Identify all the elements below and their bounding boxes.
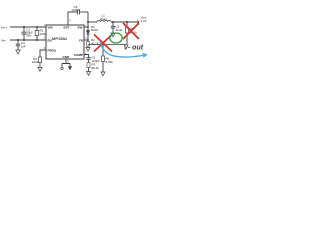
svg-text:3.3V: 3.3V bbox=[141, 19, 147, 23]
resistor R4 bbox=[39, 57, 42, 63]
ground arrow bbox=[68, 67, 72, 71]
capacitor C2 bbox=[112, 22, 114, 26]
ground bbox=[101, 72, 105, 76]
resistor R2 bbox=[87, 40, 89, 42]
op-amp U1 MP1584 box bbox=[46, 25, 84, 59]
svg-text:VIN: VIN bbox=[48, 26, 53, 30]
diode D1 bbox=[87, 27, 89, 31]
resistor R3 bbox=[87, 63, 90, 68]
wire FB pin bbox=[84, 39, 88, 41]
wire output rail bbox=[88, 21, 97, 23]
svg-text:1: 1 bbox=[85, 25, 87, 27]
wire FB net bbox=[88, 44, 127, 46]
svg-text:GND: GND bbox=[63, 55, 71, 59]
wire BST pin bbox=[68, 12, 77, 25]
inductor L1 bbox=[97, 20, 111, 22]
capacitor C1 bbox=[23, 27, 25, 32]
resistor R5 divider top bbox=[126, 22, 128, 28]
annotation blue arrow bbox=[101, 43, 146, 58]
annotation red X over divider R5 bbox=[124, 24, 139, 39]
svg-text:MP1584: MP1584 bbox=[52, 36, 68, 41]
resistor R6 divider bottom bbox=[102, 45, 104, 57]
svg-text:86.6k: 86.6k bbox=[92, 66, 100, 70]
svg-text:Vin+: Vin+ bbox=[1, 25, 7, 29]
svg-text:BST: BST bbox=[64, 26, 70, 30]
annotation green circle V-out node bbox=[110, 33, 122, 43]
svg-text:50V: 50V bbox=[26, 34, 31, 38]
svg-text:100k: 100k bbox=[40, 32, 47, 36]
node Vout terminal bbox=[137, 20, 139, 23]
capacitor C6 bbox=[86, 57, 90, 59]
resistor R1 bbox=[36, 27, 38, 31]
pin numbers bbox=[44, 21, 88, 64]
svg-text:22uF: 22uF bbox=[116, 28, 123, 32]
svg-text:V- out: V- out bbox=[124, 45, 144, 52]
wire COMP pin bbox=[84, 55, 89, 58]
svg-text:7: 7 bbox=[44, 25, 46, 27]
ground bbox=[86, 48, 90, 52]
svg-text:B230: B230 bbox=[91, 28, 98, 32]
wire SW node bbox=[87, 12, 89, 27]
svg-text:10uH: 10uH bbox=[100, 17, 107, 21]
svg-text:100nF: 100nF bbox=[72, 8, 81, 12]
svg-text:FB: FB bbox=[79, 38, 84, 42]
wire Vin+ rail bbox=[10, 26, 46, 28]
wire FREQ pin bbox=[40, 50, 46, 57]
node junction dots bbox=[17, 21, 128, 45]
svg-text:8: 8 bbox=[70, 21, 72, 23]
svg-text:3: 3 bbox=[85, 52, 87, 54]
capacitor C3 bbox=[77, 10, 79, 15]
ground signal circle bbox=[61, 67, 63, 69]
svg-text:COMP: COMP bbox=[74, 53, 83, 57]
svg-text:1nF: 1nF bbox=[21, 44, 26, 48]
wire EN rail bbox=[10, 39, 46, 41]
ground bbox=[86, 72, 90, 76]
svg-text:8.06k: 8.06k bbox=[106, 60, 114, 64]
svg-text:4: 4 bbox=[85, 38, 87, 40]
wire GND pin bbox=[62, 59, 70, 67]
annotation red X over D1/R2 bbox=[95, 35, 112, 51]
svg-text:Vin-: Vin- bbox=[1, 39, 6, 43]
svg-text:40.2k: 40.2k bbox=[91, 41, 99, 45]
svg-text:FREQ: FREQ bbox=[48, 49, 57, 53]
svg-text:100k: 100k bbox=[32, 60, 39, 64]
ground bbox=[16, 50, 20, 54]
ground V-out node bbox=[111, 33, 115, 37]
capacitor C4 bbox=[17, 40, 19, 44]
svg-text:SW: SW bbox=[78, 26, 83, 30]
ground bbox=[38, 68, 42, 72]
